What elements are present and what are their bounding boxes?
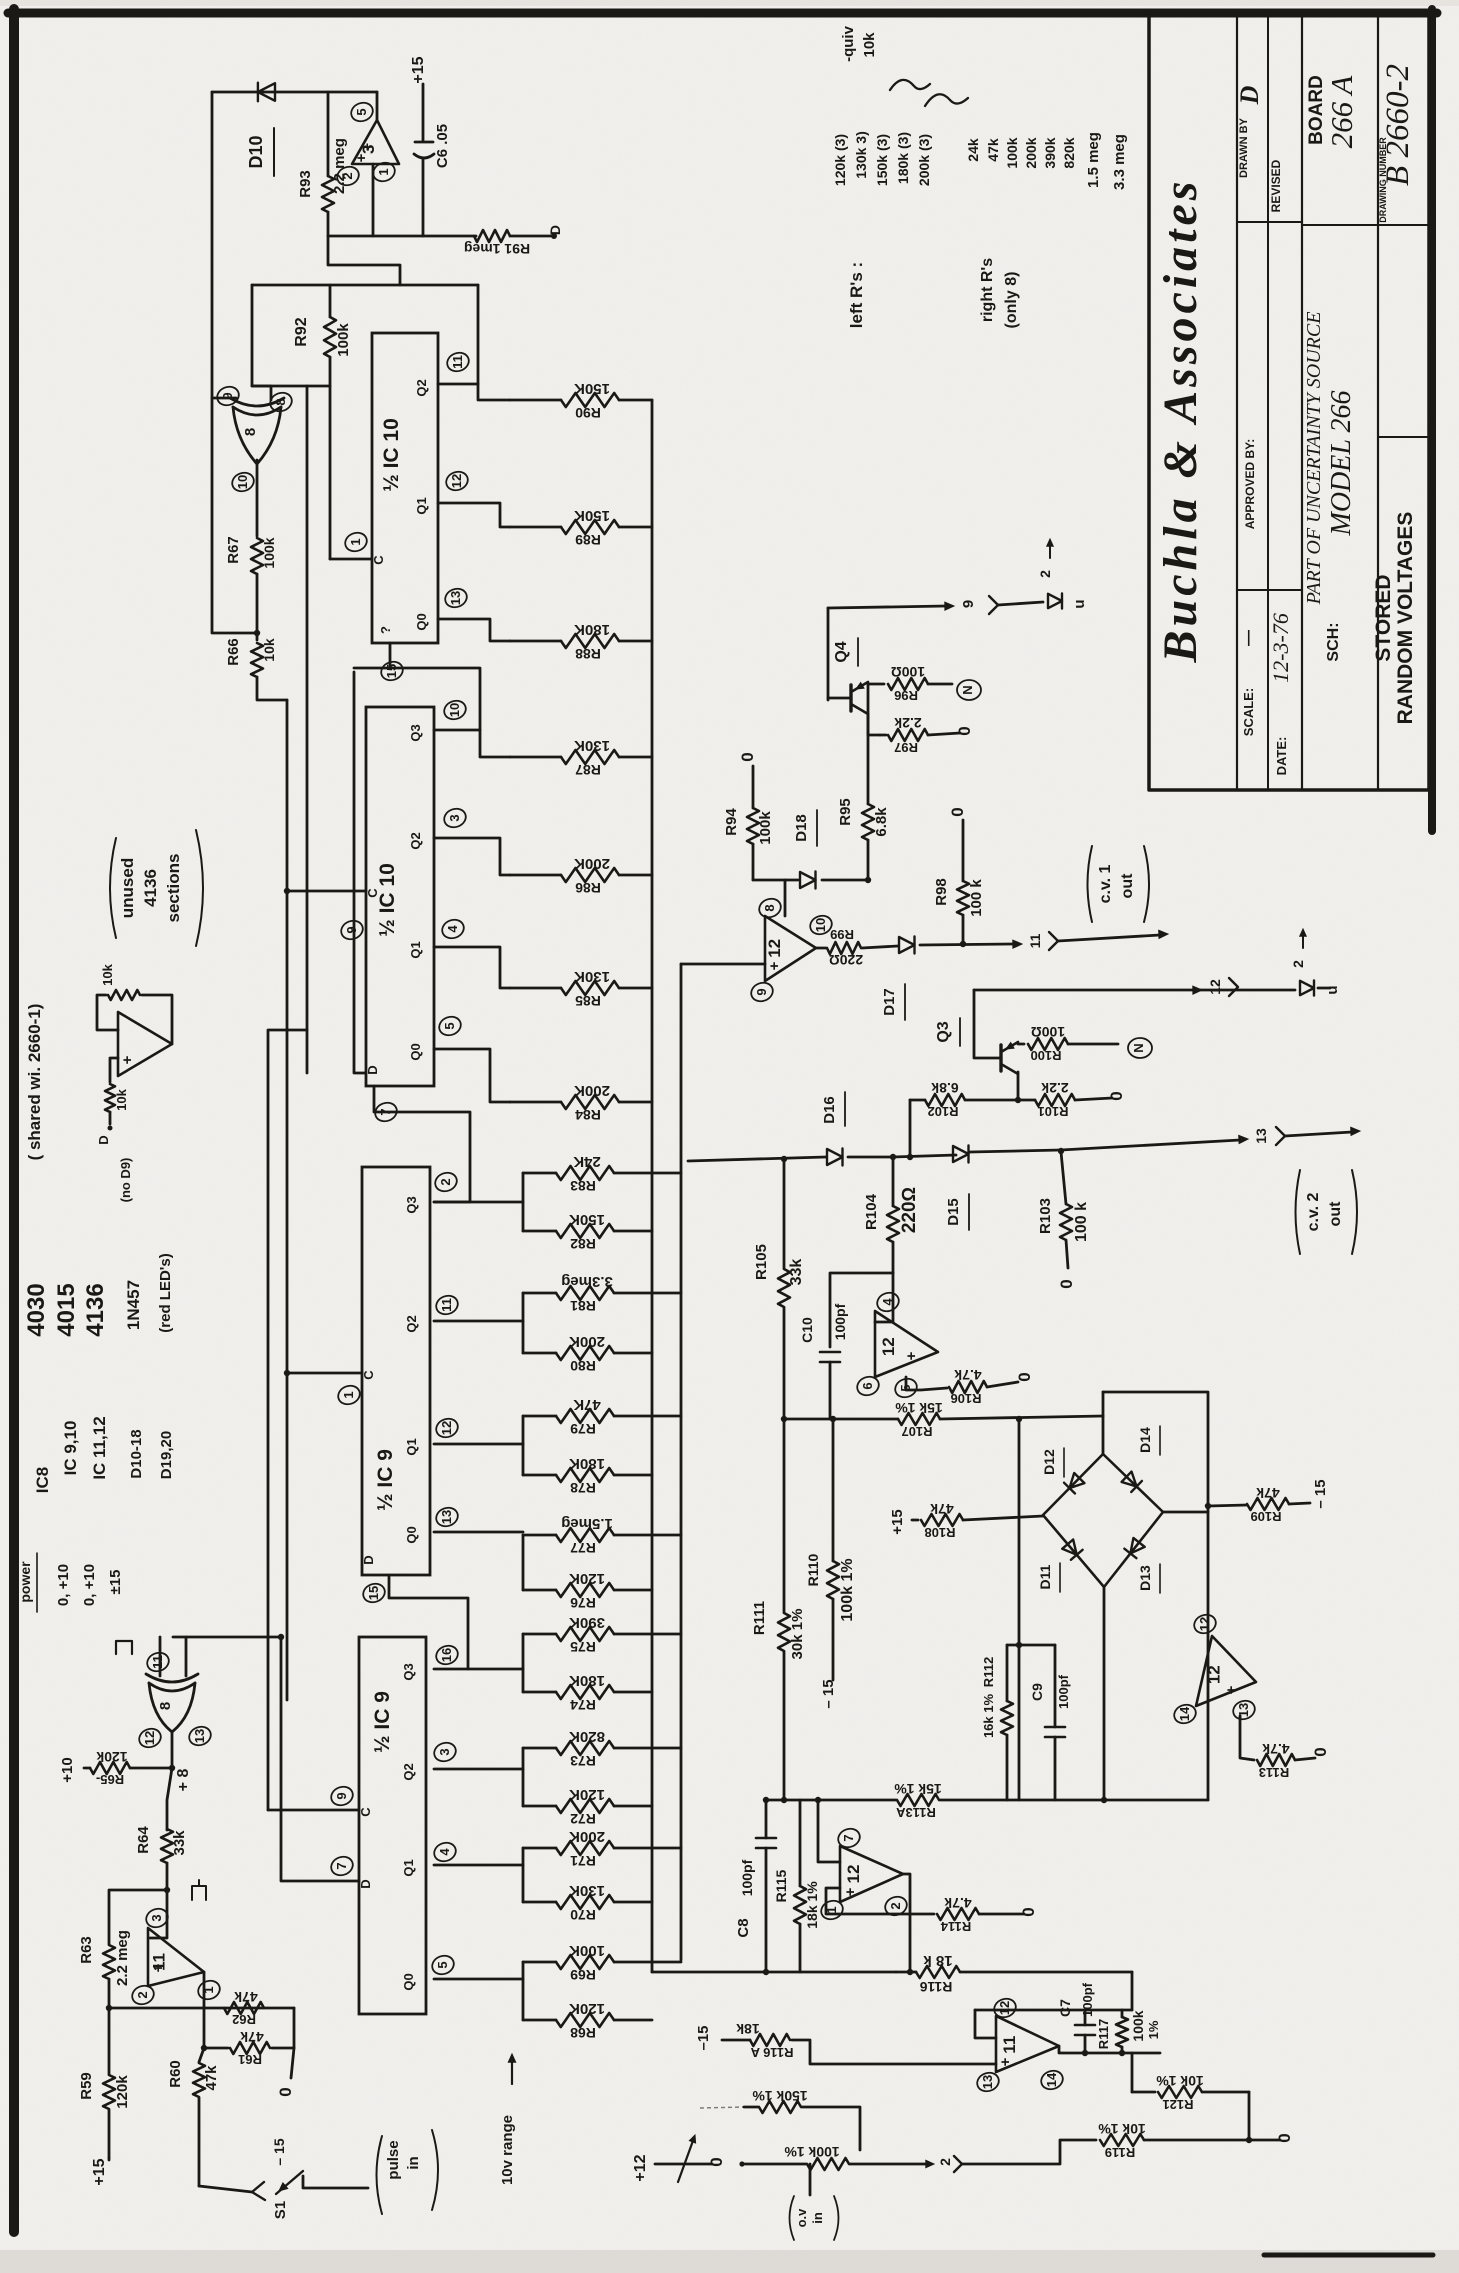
svg-text:Q1: Q1 [401, 1859, 416, 1876]
svg-text:0, +10: 0, +10 [81, 1564, 98, 1606]
svg-text:13: 13 [1253, 1128, 1269, 1144]
svg-text:4136: 4136 [141, 869, 160, 907]
junction Q3 R101 [1015, 1097, 1021, 1103]
label R67 value [261, 537, 277, 568]
diode D14 [1121, 1471, 1142, 1492]
label R104 [863, 1193, 880, 1230]
wire 12c out row [816, 944, 1012, 948]
pin label C IC10b [365, 888, 380, 898]
title block divider v2 [1267, 16, 1269, 790]
svg-text:power: power [17, 1561, 33, 1603]
svg-text:+: + [766, 961, 783, 970]
svg-text:7: 7 [841, 1834, 856, 1841]
svg-text:R119: R119 [1105, 2145, 1135, 2160]
label R113 [1259, 1765, 1289, 1780]
resistor R76 [523, 1583, 652, 1597]
label R59 value [114, 2075, 131, 2109]
svg-text:11: 11 [1027, 933, 1043, 948]
label R93 value [331, 138, 348, 194]
label R82 [570, 1236, 596, 1252]
wire R63 branch [109, 1890, 167, 1944]
terminal D [547, 225, 563, 239]
label R120 value [752, 2088, 808, 2104]
label R97 value [894, 715, 921, 731]
svg-text:R116: R116 [919, 1979, 952, 1995]
resistor R74 [523, 1685, 652, 1699]
svg-text:R63: R63 [78, 1936, 95, 1964]
svg-text:5: 5 [354, 108, 369, 115]
svg-text:220Ω: 220Ω [899, 1187, 920, 1233]
wire Q3 riser [974, 990, 1001, 1058]
svg-text:R109: R109 [1250, 1509, 1281, 1524]
svg-text:R65-: R65- [96, 1772, 124, 1787]
wire bridge right [1163, 1511, 1208, 1514]
label R76 [570, 1595, 596, 1611]
resistor R85 [510, 981, 652, 995]
svg-text:R99: R99 [830, 927, 854, 942]
label R60 [167, 2060, 184, 2088]
wire Q1b to R85 [434, 947, 510, 988]
diode u mid [1300, 980, 1314, 995]
label R88 value [574, 621, 610, 638]
resistor R60 [193, 2048, 205, 2186]
pin13 bubble IC9a [434, 1505, 461, 1529]
terminal 0 R113 [1311, 1747, 1330, 1756]
wire feedback top row2 [252, 385, 330, 388]
junction R121 R119 [1246, 2137, 1252, 2143]
pin label D IC10b [365, 1065, 380, 1074]
resistor R120 [744, 2101, 860, 2150]
transistor Q3 [1001, 1042, 1018, 1074]
bus summing cv1 [680, 964, 683, 1960]
svg-text:100 k: 100 k [1073, 1202, 1090, 1242]
label cv2 out [1296, 1170, 1358, 1254]
resistor R114 [937, 1908, 1024, 1920]
label R121 value [1156, 2073, 1204, 2089]
terminal 0 R119 [1275, 2133, 1294, 2142]
pin7 bubble cv2a [836, 1826, 863, 1850]
terminal 0 bracket [276, 2048, 295, 2097]
label D17 [881, 984, 905, 1020]
wire clock jog to IC9b C [268, 1809, 359, 1812]
svg-text:4: 4 [445, 925, 460, 933]
pin8 bubble 12c [757, 896, 784, 920]
svg-text:1: 1 [348, 538, 363, 545]
svg-text:47k: 47k [203, 2065, 220, 2091]
label Q3 [935, 1018, 960, 1046]
wire Q4 emitter [868, 684, 884, 735]
resistor R104 [887, 1157, 899, 1273]
label R72 value [569, 1786, 605, 1803]
svg-text:right R's: right R's [979, 258, 996, 322]
svg-text:+15: +15 [889, 1509, 906, 1534]
svg-text:2: 2 [1037, 570, 1053, 578]
label R89 [575, 532, 601, 548]
resistor R96 [888, 678, 952, 690]
pin9 bubble 12c [749, 980, 776, 1004]
svg-text:100pf: 100pf [1080, 1982, 1095, 2017]
svg-text:R100: R100 [1030, 1048, 1061, 1063]
resistor R91 [474, 230, 510, 242]
wire pin bracket R73/R72 [434, 1748, 523, 1806]
label R117 value [1130, 2010, 1161, 2041]
svg-text:D: D [96, 1135, 111, 1144]
wire xor1 left input [212, 397, 236, 400]
svg-text:16k 1%: 16k 1% [981, 1694, 996, 1739]
pin13 bubble 12d [1231, 1698, 1258, 1722]
wire 12c minus riser [784, 880, 787, 916]
terminal 0 R97 [955, 726, 974, 735]
wire +15 rail [410, 56, 427, 83]
svg-text:10k: 10k [114, 1088, 129, 1110]
svg-text:2.2k: 2.2k [1041, 1080, 1068, 1096]
title block divider h4 [1378, 436, 1429, 438]
svg-text:pulse: pulse [385, 2140, 402, 2179]
svg-text:120K: 120K [569, 1786, 605, 1803]
svg-text:–15: –15 [695, 2025, 712, 2050]
unused opamp input [105, 1058, 118, 1124]
resistor R89 [510, 520, 652, 534]
pot arrow [678, 2135, 696, 2182]
svg-text:R121: R121 [1162, 2097, 1193, 2112]
svg-text:3: 3 [437, 1748, 452, 1755]
wire cv2a plus leg [826, 1888, 934, 1914]
label IC10b [376, 863, 399, 937]
title block divider h1 [1237, 221, 1302, 223]
svg-text:180K: 180K [569, 1672, 605, 1689]
svg-text:Q3: Q3 [404, 1196, 419, 1213]
svg-text:Q3: Q3 [401, 1663, 416, 1680]
svg-text:R101: R101 [1037, 1104, 1068, 1119]
svg-text:0: 0 [738, 752, 757, 761]
svg-text:R61: R61 [238, 2052, 262, 2067]
svg-text:24K: 24K [573, 1153, 601, 1170]
svg-text:R113A: R113A [896, 1805, 936, 1820]
svg-text:-quiv: -quiv [840, 25, 857, 61]
svg-text:Q0: Q0 [414, 613, 429, 630]
svg-text:130k 3): 130k 3) [853, 131, 869, 178]
pin label C IC9a [361, 1370, 376, 1380]
note left R's heading [847, 262, 866, 328]
svg-text:out: out [1119, 873, 1136, 899]
svg-text:180K: 180K [574, 621, 610, 638]
svg-text:R112: R112 [981, 1657, 996, 1687]
IC9b box [359, 1637, 426, 2014]
resistor R119 [1100, 2134, 1280, 2146]
svg-text:R82: R82 [570, 1236, 596, 1252]
svg-text:Q1: Q1 [404, 1438, 419, 1455]
svg-text:12: 12 [765, 939, 784, 958]
parts list part numbers [23, 1253, 174, 1336]
title revised label [1269, 159, 1283, 212]
svg-text:0, +10: 0, +10 [55, 1564, 72, 1606]
svg-text:+: + [353, 153, 370, 162]
label R78 value [569, 1455, 605, 1472]
wire bridge top [1102, 1416, 1105, 1454]
pin label Q3 IC9a [404, 1196, 419, 1213]
wire cv2out arrow [1285, 1127, 1360, 1136]
resistor R84 [510, 1095, 652, 1109]
label C9 value [1056, 1674, 1071, 1709]
svg-text:150K: 150K [574, 380, 610, 397]
label R119 value [1098, 2121, 1146, 2137]
svg-text:sections: sections [164, 854, 183, 923]
svg-text:SCH:: SCH: [1325, 622, 1342, 661]
svg-text:0: 0 [276, 2087, 295, 2096]
terminal 0 pot [707, 2157, 726, 2166]
resistor R61 [204, 2042, 294, 2054]
label R79 value [573, 1396, 601, 1413]
label D12 [1041, 1448, 1064, 1477]
label R65 value [96, 1749, 127, 1765]
svg-text:13: 13 [980, 2075, 995, 2089]
svg-text:130K: 130K [574, 968, 610, 985]
wire Q0b to R84 [434, 1049, 510, 1102]
resistor R101 [1035, 1094, 1075, 1106]
svg-text:820k: 820k [1061, 137, 1077, 168]
svg-text:13: 13 [192, 1729, 207, 1743]
op-amp IC11b [148, 1928, 204, 1986]
note shared with 2660-1 [25, 1004, 44, 1161]
svg-text:220Ω: 220Ω [829, 952, 863, 968]
label R116A value [736, 2021, 760, 2037]
wire left vertical [211, 92, 214, 398]
svg-text:in: in [405, 2156, 422, 2169]
svg-text:100pf: 100pf [1056, 1674, 1071, 1709]
pin label Q2 IC9b [401, 1763, 416, 1780]
title block divider v3 [1301, 16, 1303, 790]
svg-text:13: 13 [448, 591, 463, 605]
resistor R66 [251, 643, 287, 700]
resistor R94 [747, 766, 759, 880]
label R91 [464, 241, 530, 257]
label ov in [790, 2196, 839, 2240]
svg-text:R78: R78 [570, 1480, 596, 1496]
svg-text:?: ? [378, 626, 393, 634]
resistor R111 [778, 1613, 790, 1651]
wire Q1 to R89 [438, 503, 510, 527]
svg-text:390k: 390k [1042, 137, 1058, 168]
svg-text:R111: R111 [751, 1601, 768, 1635]
svg-text:100k: 100k [1130, 2010, 1146, 2041]
wire opamp11c plus leg [792, 2040, 996, 2064]
label R80 value [569, 1333, 605, 1350]
svg-text:150K: 150K [574, 507, 610, 524]
svg-text:8: 8 [242, 428, 259, 436]
label R84 [575, 1107, 601, 1123]
wire minus row [753, 879, 868, 882]
svg-text:4: 4 [437, 1848, 452, 1856]
svg-text:10k 1%: 10k 1% [1098, 2121, 1146, 2137]
diode D10 [258, 83, 275, 102]
svg-text:R84: R84 [575, 1107, 601, 1123]
svg-text:+15: +15 [91, 2158, 108, 2185]
svg-text:R87: R87 [575, 762, 601, 778]
svg-text:0: 0 [955, 726, 974, 735]
pin label D IC9a [361, 1555, 376, 1564]
wire integrator top [975, 2009, 1132, 2012]
svg-text:—: — [1240, 630, 1257, 646]
label u mid [1318, 985, 1341, 994]
label R90 [575, 405, 601, 421]
svg-text:12: 12 [1204, 1665, 1223, 1684]
resistor R113A [897, 1794, 939, 1806]
svg-text:200k (3): 200k (3) [916, 134, 932, 186]
left spine vertical [783, 1160, 786, 1800]
pin label C IC9b [358, 1807, 373, 1817]
resistor R81 [523, 1286, 681, 1300]
svg-text:R76: R76 [570, 1595, 596, 1611]
label R104 value [899, 1187, 920, 1233]
svg-text:+: + [150, 1963, 167, 1972]
pin3 bubble opamp11 [144, 1906, 171, 1930]
label gate 8b [157, 1702, 174, 1710]
svg-text:12: 12 [1197, 1617, 1212, 1631]
resistor R117 [1116, 2010, 1128, 2053]
label R60 value [203, 2065, 220, 2091]
svg-text:S1: S1 [272, 2201, 289, 2219]
label R100 value [1031, 1024, 1065, 1040]
pin5 bubble 12b [893, 1376, 920, 1400]
svg-text:2: 2 [438, 1178, 453, 1185]
svg-text:130K: 130K [574, 737, 610, 754]
svg-text:R66: R66 [225, 638, 242, 666]
note equiv 10k [840, 25, 878, 61]
svg-text:D10-18: D10-18 [128, 1429, 145, 1478]
label R110 [805, 1553, 821, 1586]
svg-text:C9: C9 [1029, 1683, 1045, 1701]
border frame bottom-right [1264, 2253, 1433, 2258]
ov in riser [809, 2164, 812, 2195]
svg-text:R75: R75 [570, 1639, 596, 1655]
wire R112 C9 bracket [1007, 1644, 1055, 1647]
svg-text:R62: R62 [232, 2012, 256, 2027]
pin label Q1 [414, 497, 429, 514]
label D13 [1137, 1564, 1160, 1593]
op-amp IC11a comparator [352, 120, 399, 164]
pulse glyph xor2 [116, 1641, 132, 1654]
label D15 [945, 1194, 969, 1230]
label R65 [96, 1772, 124, 1787]
svg-text:R68: R68 [570, 2025, 596, 2041]
bus clock vertical [286, 700, 289, 1700]
resistor R59 [103, 2008, 115, 2158]
title block divider h3 [1302, 224, 1429, 226]
wire S1 to pulse-in [303, 2176, 368, 2188]
junction minus [815, 1797, 821, 1803]
label R95 value [873, 807, 890, 837]
svg-text:14: 14 [1044, 2072, 1059, 2087]
wire xor2 output [171, 1732, 174, 1768]
svg-text:9: 9 [344, 926, 359, 933]
svg-text:6: 6 [860, 1382, 875, 1389]
svg-text:8: 8 [273, 398, 288, 405]
pin3 bubble [442, 806, 469, 830]
label R84 value [574, 1082, 610, 1099]
note brace 2 [925, 94, 968, 106]
wire pin bracket R83/R82 [434, 1173, 523, 1231]
svg-text:(only 8): (only 8) [1003, 272, 1020, 329]
svg-text:Buchla & Associates: Buchla & Associates [1154, 178, 1207, 664]
label IC9b [371, 1691, 394, 1753]
resistor R97 [880, 729, 960, 741]
unused opamp feedback 10k [97, 990, 172, 1044]
svg-text:C7: C7 [1057, 1999, 1073, 2017]
label R85 value [574, 968, 610, 985]
label R69 value [569, 1942, 605, 1959]
label R64 [135, 1826, 152, 1854]
title block outer box [1149, 16, 1429, 790]
svg-text:+12: +12 [632, 2154, 649, 2181]
label R96 [894, 688, 918, 703]
pin10 bubble [442, 698, 469, 722]
label R96 value [891, 664, 925, 680]
pin13 bubble 11c [975, 2070, 1002, 2094]
note unused parens [110, 830, 203, 946]
resistor R82 [523, 1224, 652, 1238]
svg-text:130K: 130K [569, 1882, 605, 1899]
junction xor2 out [169, 1765, 175, 1771]
resistor R92 [324, 285, 336, 559]
junction bracket [1016, 1642, 1022, 1648]
wire W5 row [784, 1416, 1103, 1419]
svg-text:+15: +15 [410, 56, 427, 83]
label R72 [570, 1811, 596, 1827]
svg-text:3: 3 [149, 1914, 164, 1921]
svg-text:100K: 100K [569, 1942, 605, 1959]
svg-text:Q3: Q3 [408, 724, 423, 741]
svg-text:Q0: Q0 [408, 1043, 423, 1060]
diode D13 [1124, 1538, 1145, 1559]
label R62 value [234, 1989, 258, 2005]
svg-text:266 A: 266 A [1324, 75, 1359, 149]
label R110 value [839, 1558, 856, 1621]
terminal 0 R101 [1107, 1091, 1126, 1100]
label R78 [570, 1480, 596, 1496]
label D18 [793, 810, 817, 846]
label R83 value [573, 1153, 601, 1170]
title model text [1326, 391, 1357, 537]
label R87 value [574, 737, 610, 754]
label R102 value [931, 1080, 958, 1096]
bus C jog vertical [268, 1030, 307, 1810]
svg-text:10v range: 10v range [499, 2115, 516, 2185]
label R68 [570, 2025, 596, 2041]
wire clock to IC10b C [287, 890, 366, 893]
label +8 [175, 1769, 192, 1792]
svg-text:16: 16 [439, 1648, 454, 1662]
resistor R79 [523, 1409, 681, 1423]
junction R104 top [890, 1154, 896, 1160]
title board label [1306, 75, 1359, 149]
label R102 [927, 1104, 958, 1119]
svg-text:30k 1%: 30k 1% [789, 1609, 806, 1660]
label D11 [1037, 1563, 1060, 1592]
svg-text:– 15: – 15 [271, 2138, 287, 2165]
svg-text:C: C [358, 1807, 373, 1817]
resistor R109 [1208, 1498, 1310, 1510]
label R121 [1162, 2097, 1193, 2112]
svg-text:R105: R105 [753, 1244, 770, 1280]
svg-text:100 k: 100 k [968, 879, 985, 917]
pin5 bubble IC10b [437, 1014, 464, 1038]
svg-text:R83: R83 [570, 1178, 596, 1194]
label D16 [821, 1092, 845, 1126]
label R77 [570, 1540, 596, 1556]
resistor R110 [827, 1419, 839, 1680]
label R115 value [804, 1881, 820, 1929]
svg-text:4.7k: 4.7k [954, 1367, 981, 1383]
